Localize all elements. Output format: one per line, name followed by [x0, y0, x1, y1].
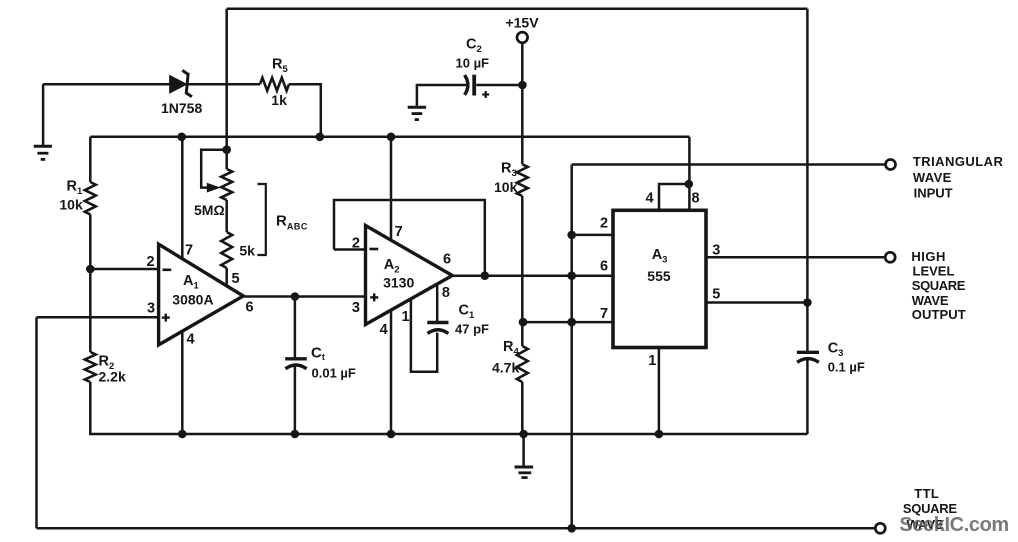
node junction ground bus 555pin1 [655, 430, 664, 439]
capacitor C1 top plate [427, 321, 448, 324]
op-amp A1 triangle [159, 244, 244, 345]
wire from zener cathode to R5 [186, 83, 260, 86]
node junction pin7 tap [567, 318, 576, 327]
wire pin 8 stub [688, 184, 691, 211]
terminal TTL square wave [875, 523, 885, 533]
ground symbol top left [34, 145, 52, 148]
svg-text:6: 6 [246, 300, 254, 316]
svg-text:4.7k: 4.7k [492, 360, 519, 376]
ground symbol below R4 [515, 466, 534, 469]
wire A1 pin 3 input from feedback corner [37, 316, 159, 319]
wire TTL output line along bottom [37, 527, 876, 530]
op-amp A1 minus sign [163, 268, 172, 271]
wire Ct top branch [294, 297, 297, 358]
R_ABC bracket [257, 184, 265, 255]
svg-text:1: 1 [648, 353, 656, 369]
svg-text:LEVEL: LEVEL [913, 264, 955, 279]
svg-text:6: 6 [443, 252, 451, 268]
svg-text:1k: 1k [271, 92, 287, 108]
svg-text:WAVE: WAVE [913, 170, 952, 185]
wire triangular wave line [572, 163, 886, 166]
capacitor C2 curved left plate [465, 75, 468, 95]
wire 5k bottom into A1 pin 5 [225, 268, 228, 287]
svg-text:2: 2 [600, 216, 608, 232]
svg-text:3: 3 [712, 242, 720, 258]
node junction pin6 tap [567, 271, 576, 280]
terminal triangular wave input [886, 160, 896, 170]
wire pins 4 and 8 tie bracket [659, 184, 689, 211]
node junction pins 4-8 [685, 180, 694, 189]
wire left ground stub vertical [42, 84, 45, 146]
svg-text:6: 6 [600, 259, 608, 275]
wire A2 output to 555 pins 2-6 line [452, 274, 613, 277]
potentiometer wiper arrowhead [207, 183, 221, 193]
svg-text:5: 5 [712, 287, 720, 303]
resistor R1 10k zigzag [85, 182, 96, 215]
node junction bus-R1pin7 [177, 133, 186, 142]
resistor R5 1k zigzag [260, 78, 289, 91]
wire R4 bottom to ground bus [521, 382, 524, 434]
resistor R2 2.2k zigzag [85, 352, 96, 382]
svg-text:10k: 10k [59, 197, 83, 213]
capacitor Ct top plate [285, 357, 307, 360]
node junction ground bus A1pin4 [178, 430, 187, 439]
node junction ground bus Ct [291, 430, 300, 439]
wire A1 output to A2 pin 3 [243, 295, 366, 298]
wire pin 7 line from R3-R4 junction to 555 [522, 321, 613, 324]
capacitor C3 curved bottom plate [797, 359, 819, 363]
wire R1 top segment from bus corner [89, 137, 92, 182]
wire A2 pin 8 branch to C1 [436, 286, 439, 322]
svg-text:2: 2 [352, 235, 360, 251]
svg-text:INPUT: INPUT [914, 185, 953, 200]
wire top rail from pot node to C3 branch [227, 8, 808, 11]
svg-text:3130: 3130 [383, 275, 414, 291]
svg-text:TTL: TTL [914, 486, 939, 501]
wire A2 pin 1 hook [411, 300, 437, 372]
wire A1 pin 2 input [90, 268, 158, 271]
svg-text:0.1 µF: 0.1 µF [828, 360, 865, 375]
wire 555 pin 1 to ground bus [658, 347, 661, 434]
svg-text:8: 8 [692, 191, 700, 207]
svg-text:SeekIC.com: SeekIC.com [899, 514, 1008, 536]
wire bus corner down to pins 4-8 node [688, 137, 691, 184]
wire C2 ground side [417, 85, 466, 107]
capacitor C2 right plate [472, 75, 476, 96]
svg-text:8: 8 [442, 285, 450, 301]
wire between 5M pot and 5k resistor [225, 200, 228, 232]
op-amp A1 plus sign [162, 316, 170, 318]
op-amp A2 plus sign [370, 296, 378, 298]
svg-text:WAVE: WAVE [912, 293, 949, 308]
node junction ground bus A2pin4 [387, 430, 396, 439]
wire diode anode line from left ground corner to zener [43, 83, 171, 86]
svg-text:0.01 µF: 0.01 µF [312, 366, 356, 381]
svg-text:2.2k: 2.2k [99, 369, 126, 385]
svg-text:10k: 10k [494, 179, 518, 195]
wire A2 pin 2 input [334, 248, 366, 251]
svg-text:10 µF: 10 µF [456, 55, 490, 70]
svg-text:OUTPUT: OUTPUT [912, 307, 966, 322]
wire vertical from top rail down to potentiometer node [225, 9, 228, 150]
wire TTL feedback vertical at far left [35, 317, 38, 528]
resistor 5k zigzag [221, 232, 232, 268]
wire A2 pin 7 from bus [390, 137, 393, 241]
capacitor C1 curved bottom plate [428, 330, 449, 334]
wire A1 pin 7 from bus [181, 137, 184, 260]
wire feedback bus horizontal [90, 136, 689, 139]
wire R2 bottom to ground bus corner [90, 382, 807, 434]
node junction ground bus R4 [519, 430, 528, 439]
terminal high level square wave output [885, 252, 895, 262]
svg-text:3: 3 [352, 300, 360, 316]
svg-text:3080A: 3080A [172, 292, 213, 308]
wire long vertical tying pins 2-6-7 and TTL line [570, 165, 573, 529]
svg-text:1: 1 [402, 309, 410, 325]
node junction C2 supply [518, 81, 527, 90]
zener diode 1N758 triangle [170, 76, 186, 93]
svg-text:4: 4 [380, 322, 388, 338]
ground symbol below C2 [408, 106, 426, 109]
wire +15V supply down through R3 position [521, 43, 524, 165]
svg-text:4: 4 [646, 191, 654, 207]
svg-text:SQUARE: SQUARE [912, 278, 966, 293]
wire from R5 right end with corner down to feedback bus [289, 84, 321, 137]
svg-text:555: 555 [647, 268, 671, 284]
node junction TTL tap [567, 524, 576, 533]
node junction pin5 C3 [803, 298, 812, 307]
node junction R3-R4-pin7 [519, 318, 528, 327]
node junction bus-A2pin7 [387, 133, 396, 142]
svg-text:47 pF: 47 pF [455, 322, 489, 337]
svg-text:2: 2 [147, 254, 155, 270]
wire C3 branch vertical upper [806, 9, 809, 351]
svg-text:7: 7 [185, 243, 193, 259]
op-amp A2 minus sign [369, 248, 378, 251]
power terminal +15V circle [517, 32, 528, 43]
svg-text:4: 4 [187, 332, 195, 348]
wire ground stub below bus at R4 [522, 434, 525, 466]
svg-text:7: 7 [600, 306, 608, 322]
svg-text:5k: 5k [239, 243, 255, 259]
timer A3 555 box [613, 210, 706, 347]
svg-text:5: 5 [232, 271, 240, 287]
wire pot wiper loop [201, 150, 227, 188]
wire A2 pin 4 to ground bus [390, 311, 393, 434]
wire pot top stub [225, 150, 228, 169]
svg-text:7: 7 [395, 224, 403, 240]
node junction R1-R2-pin2 [86, 265, 95, 274]
svg-text:HIGH: HIGH [911, 249, 945, 264]
svg-text:+15V: +15V [505, 15, 539, 31]
wire Ct bottom to ground bus [294, 367, 297, 435]
node junction pot top [222, 145, 231, 154]
wire 555 pin 3 output line [706, 256, 885, 259]
wire A1 pin 4 to ground bus [181, 330, 184, 434]
node junction pin2 tap [567, 231, 576, 240]
resistor R3 10k zigzag [517, 164, 528, 196]
resistor R4 4.7k zigzag [517, 346, 528, 382]
capacitor C2 plus sign [482, 93, 489, 95]
svg-text:TRIANGULAR: TRIANGULAR [913, 154, 1004, 169]
node junction bus-R5 [316, 133, 325, 142]
svg-text:3: 3 [147, 301, 155, 317]
op-amp A2 triangle [366, 226, 453, 325]
zener diode 1N758 cathode bar [182, 70, 192, 96]
potentiometer 5M zigzag [221, 169, 232, 200]
capacitor Ct curved bottom plate [285, 365, 306, 369]
node junction A2 output feedback [481, 271, 490, 280]
svg-text:5MΩ: 5MΩ [194, 202, 225, 218]
wire C2 plus side to supply [476, 84, 522, 87]
wire 555 pin 2 stub [572, 234, 613, 237]
wire R3 bottom to R4 top [521, 196, 524, 346]
node junction A1 output Ct [291, 292, 300, 301]
wire R1 bottom to R1-R2 junction [89, 215, 92, 270]
wire C3 bottom to ground bus corner [806, 360, 809, 435]
capacitor C3 top plate [797, 351, 819, 354]
wire A2 feedback loop top and right [334, 200, 485, 276]
wire R2 top segment [89, 269, 92, 352]
wire 555 pin 5 line [706, 301, 807, 304]
svg-text:1N758: 1N758 [161, 100, 202, 116]
